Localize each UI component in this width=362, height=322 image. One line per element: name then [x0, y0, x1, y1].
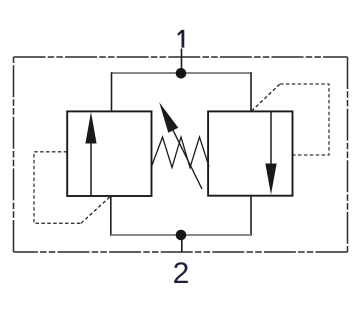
pilot line V2 (dashed, right) [280, 84, 329, 155]
valve V2 body (right box) [208, 111, 292, 195]
spring adjustment arrow head [159, 102, 178, 133]
wire bottom header [111, 234, 251, 236]
node 1 [176, 68, 187, 79]
wire right riser lower [250, 196, 252, 236]
wire port-2 stem [181, 239, 183, 252]
pilot line V1 diagonal [81, 196, 111, 223]
pilot line V2 diagonal [252, 84, 281, 111]
node 2 [176, 230, 187, 241]
valve V1 flow arrow [85, 112, 96, 196]
valve V2 flow arrow [265, 111, 276, 194]
port 1 label [178, 30, 183, 48]
spring adjustment arrow shaft [170, 124, 202, 189]
wire top header [112, 72, 252, 74]
spring (between valve bodies) [152, 137, 210, 168]
wire right riser upper [250, 72, 252, 111]
enclosure (dash-dot boundary) [14, 57, 348, 252]
svg-text:2: 2 [173, 257, 190, 290]
wire port-1 stem [181, 49, 183, 71]
pilot line V1 (dashed, left) [34, 152, 81, 224]
wire left riser upper [111, 72, 113, 111]
wire left riser lower [110, 196, 112, 236]
valve V1 body (left box) [67, 111, 151, 196]
